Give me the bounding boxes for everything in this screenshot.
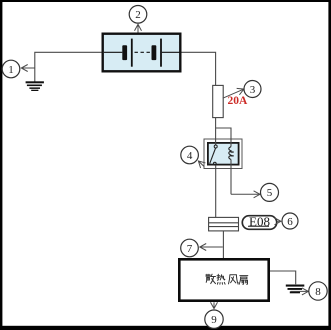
svg-text:3: 3 (250, 84, 256, 96)
label E08 (242, 214, 276, 229)
svg-text:1: 1 (8, 64, 14, 76)
svg-text:E08: E08 (249, 214, 270, 229)
svg-text:2: 2 (135, 9, 141, 21)
wire fan to ground (270, 271, 296, 284)
relay switch contact (210, 145, 218, 165)
wire from node 1 area to battery (35, 52, 102, 81)
callout 6 (277, 213, 298, 229)
callout 9 (205, 302, 223, 328)
callout 4 (181, 146, 204, 166)
ground G1 (26, 81, 44, 91)
callout 5 (231, 183, 279, 201)
wire relay switch to connector (215, 165, 217, 217)
callout 2 (129, 6, 147, 33)
wire battery to fuse (182, 52, 216, 85)
callout 1 (2, 60, 35, 78)
relay coil (229, 147, 234, 160)
relay outer box (204, 139, 242, 169)
svg-text:9: 9 (211, 314, 217, 326)
svg-text:7: 7 (187, 243, 193, 255)
wire branch to relay coil (216, 128, 231, 147)
callout 7 (181, 239, 223, 257)
wire connector to fan (222, 231, 224, 258)
svg-text:20A: 20A (228, 95, 249, 107)
svg-text:6: 6 (287, 216, 293, 228)
wire fuse to relay switch (215, 118, 217, 145)
svg-text:4: 4 (187, 150, 193, 162)
relay inner box (208, 143, 239, 165)
fuse F1 (213, 85, 224, 117)
battery (103, 34, 181, 72)
ground G2 (286, 285, 305, 294)
wire coil to node 5 (230, 160, 232, 195)
connector (209, 217, 239, 231)
callout 8 (291, 282, 328, 300)
label fan text 散热风扇 (206, 274, 248, 284)
svg-text:8: 8 (315, 286, 321, 298)
callout 3 (223, 81, 261, 99)
svg-text:5: 5 (267, 187, 273, 199)
fan box (179, 259, 268, 300)
